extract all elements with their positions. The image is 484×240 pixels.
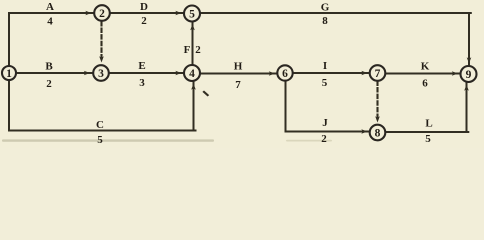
- node 6: [277, 65, 292, 80]
- svg-text:3: 3: [139, 77, 145, 89]
- svg-text:2: 2: [99, 8, 105, 20]
- svg-text:8: 8: [375, 127, 381, 139]
- node 7: [370, 65, 386, 81]
- arrowhead dummy into node 3: [99, 56, 104, 62]
- node 2: [94, 5, 110, 21]
- svg-text:C: C: [96, 119, 104, 131]
- wire I 6 to 7: [293, 72, 369, 74]
- svg-text:5: 5: [322, 77, 328, 89]
- node 8: [370, 125, 386, 141]
- svg-text:G: G: [321, 1, 330, 13]
- arrowhead L into node 9: [464, 85, 469, 91]
- arrowhead K into node 9: [452, 71, 458, 76]
- svg-text:6: 6: [282, 68, 288, 80]
- arrowhead J into node 8: [361, 129, 367, 134]
- svg-text:5: 5: [425, 133, 431, 145]
- node 9: [461, 66, 477, 82]
- arrowhead F into node 5: [190, 24, 195, 30]
- svg-text:8: 8: [322, 15, 328, 27]
- wire C path 1 to 4: [9, 80, 196, 131]
- dashed dummy 7 to 8: [376, 82, 378, 120]
- wire D 2 to 5: [110, 12, 184, 14]
- svg-text:2: 2: [141, 15, 147, 27]
- svg-text:5: 5: [97, 134, 103, 146]
- svg-text:I: I: [323, 60, 327, 72]
- svg-text:2: 2: [321, 133, 327, 145]
- arrowhead G into node 9: [467, 57, 472, 63]
- arrowhead A into node 2: [85, 11, 91, 16]
- wire A path 1 to 2: [9, 13, 93, 66]
- svg-text:7: 7: [375, 68, 381, 80]
- node 4: [184, 65, 200, 81]
- arrowhead I into node 7: [361, 71, 367, 76]
- stray ink mark: [202, 91, 209, 97]
- svg-text:2: 2: [46, 78, 52, 90]
- wire H 4 to 6: [200, 73, 277, 75]
- node 3: [93, 65, 109, 81]
- svg-text:2: 2: [195, 44, 201, 56]
- arrowhead H into node 6: [269, 71, 275, 76]
- arrowhead dummy into node 8: [375, 116, 380, 122]
- svg-text:K: K: [421, 60, 430, 72]
- dashed dummy 2 to 3: [100, 22, 102, 60]
- svg-text:F: F: [184, 44, 191, 56]
- arrowhead C into node 4: [191, 84, 196, 90]
- wire G path 5 to 9: [200, 13, 471, 65]
- node 1: [2, 66, 16, 80]
- arrowhead D into node 5: [175, 11, 181, 16]
- svg-text:5: 5: [189, 8, 195, 20]
- svg-text:4: 4: [189, 68, 195, 80]
- arrowhead E into node 4: [175, 71, 181, 76]
- wire J path 6 to 8: [286, 81, 370, 132]
- svg-text:4: 4: [47, 15, 53, 27]
- svg-text:J: J: [322, 117, 328, 129]
- arrowhead B into node 3: [84, 71, 90, 76]
- wire F 4 to 5: [192, 23, 194, 65]
- svg-text:7: 7: [235, 79, 241, 91]
- wire B 1 to 3: [16, 72, 93, 74]
- svg-text:D: D: [140, 1, 148, 13]
- svg-text:B: B: [45, 60, 53, 72]
- svg-text:A: A: [46, 1, 54, 13]
- node 5: [184, 6, 200, 22]
- svg-text:3: 3: [98, 68, 104, 80]
- wire L path 8 to 9: [386, 83, 469, 132]
- wire K 7 to 9: [386, 73, 460, 75]
- wire E 3 to 4: [109, 72, 184, 74]
- svg-text:L: L: [425, 117, 432, 129]
- svg-text:1: 1: [6, 68, 12, 80]
- svg-text:E: E: [138, 60, 145, 72]
- svg-text:9: 9: [466, 69, 472, 81]
- svg-text:6: 6: [422, 77, 428, 89]
- svg-text:H: H: [234, 60, 243, 72]
